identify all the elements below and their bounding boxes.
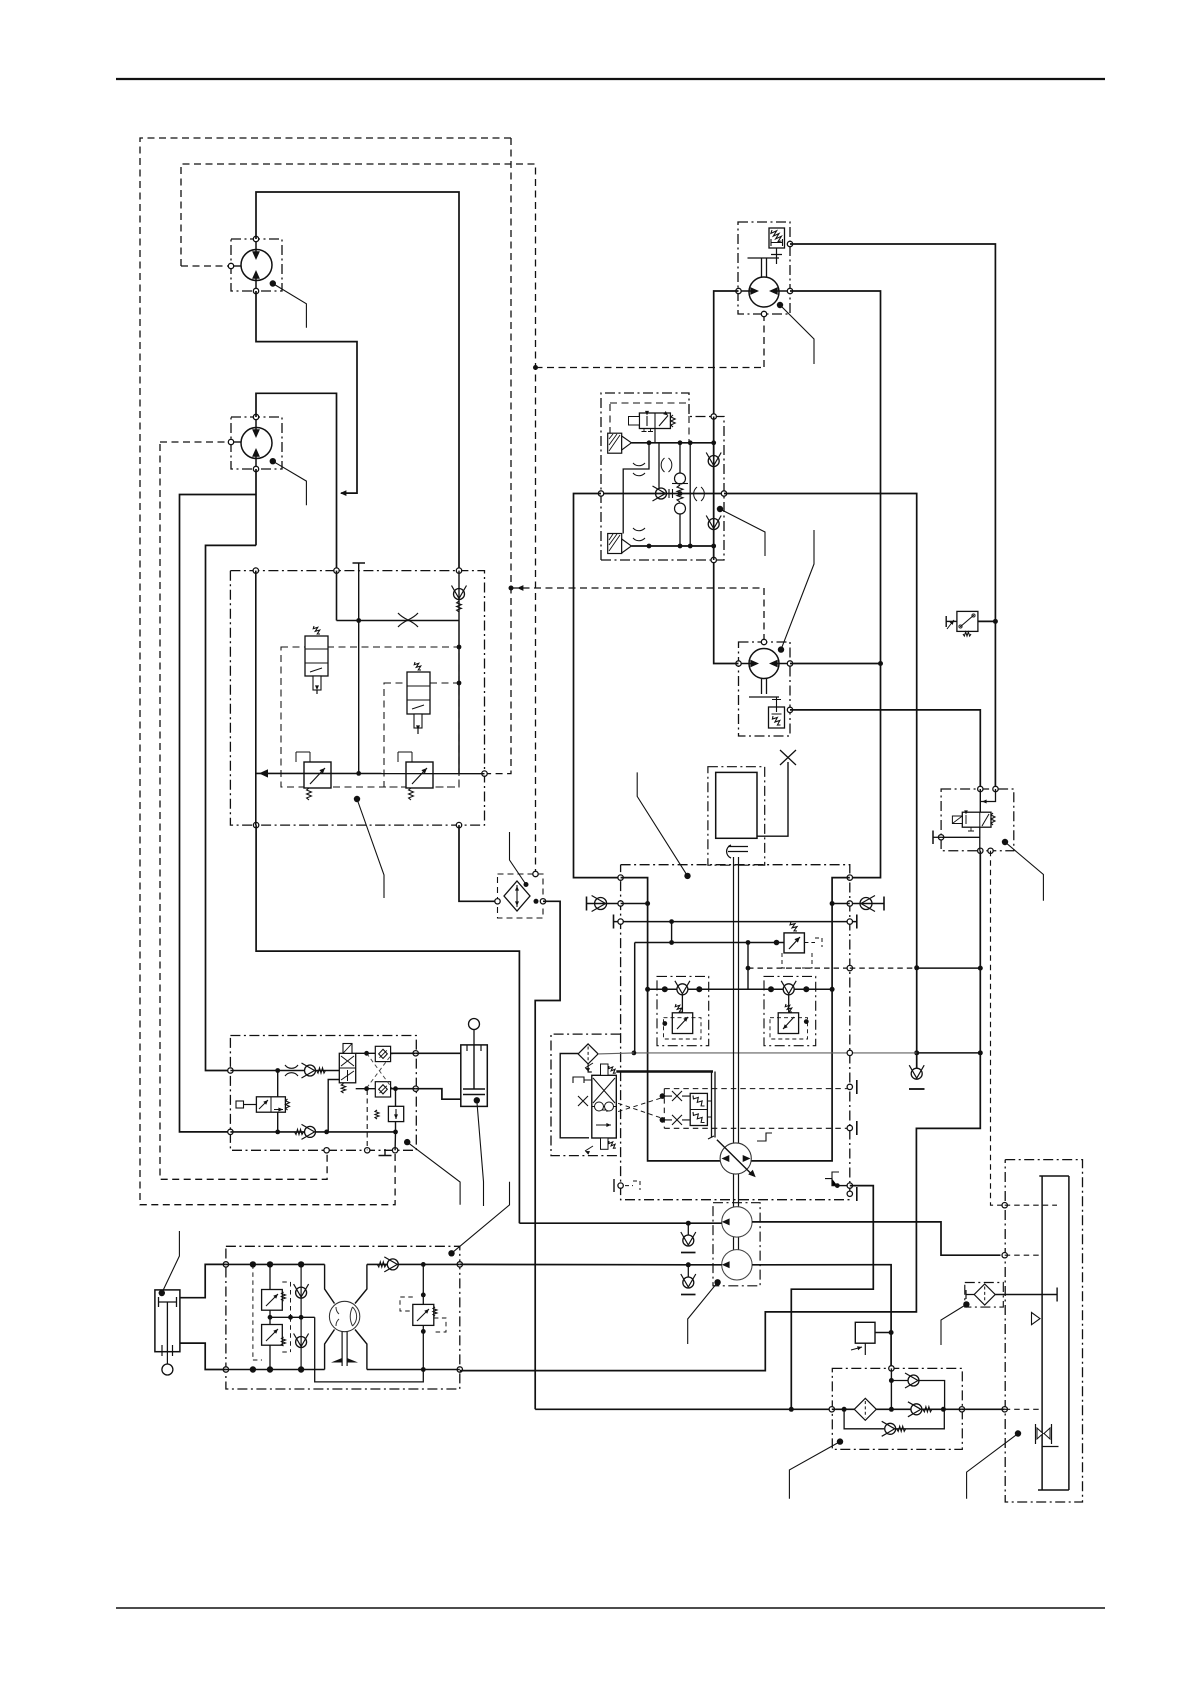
shuttle junction b [534, 899, 539, 904]
motor M3 bottom port [761, 311, 766, 316]
V2 throttle symbol [398, 613, 418, 627]
block V4 outline [621, 865, 850, 1200]
motor M3 enclosure box [738, 222, 790, 314]
gear pump P3a circle [722, 1207, 752, 1237]
strainer F3 diamond [974, 1284, 995, 1305]
P1 rail jog from pump left low [325, 1330, 335, 1370]
cylinder C1 stem and head circle [473, 1030, 475, 1045]
P1 right valve column bottom [422, 1326, 424, 1370]
V1 valve drop [658, 443, 660, 494]
V4 left check port [618, 901, 623, 906]
F2 junction a [842, 1407, 847, 1412]
V4 comp port top [847, 1084, 852, 1089]
V1 metering check left [656, 488, 667, 499]
shuttle right port [540, 899, 545, 904]
P1 valve column [269, 1264, 271, 1289]
V2 rail junction a [356, 771, 361, 776]
wire M3 relief to pressure switch column [790, 244, 995, 789]
regulator X stub [578, 1096, 588, 1106]
motor M1 top port [253, 236, 258, 241]
V4 comp tbar top [856, 1080, 858, 1094]
wire M2 bottom long drop [255, 469, 257, 545]
pump regulator box RB outline [551, 1034, 621, 1156]
junction on enclosure A edge [509, 586, 514, 591]
V2 top port 2 [334, 568, 339, 573]
valve block V2 outline [230, 571, 484, 826]
V2 upper rail [337, 620, 460, 622]
V1 rail junction [711, 440, 716, 445]
solenoid valve Y2 in V2 [414, 662, 421, 670]
V3 bottom port 1 [324, 1148, 329, 1153]
V4 left inlet check [595, 898, 607, 910]
P1 check top right [387, 1259, 398, 1270]
wire V2 bottom1 to pump line [256, 825, 519, 1223]
pressure reducing valve PR2 [406, 762, 433, 788]
tank coupler symbol [1036, 1424, 1052, 1444]
P1 top rail [226, 1263, 325, 1265]
motor M3 circle [749, 277, 779, 307]
compensator stub dot upper [660, 1093, 666, 1099]
pressure switch PS1 [957, 611, 978, 631]
P1 dashed pilot lines [253, 1264, 262, 1360]
V4 top-left port [618, 875, 623, 880]
F2 top port [889, 1366, 894, 1371]
V1 center twin circles with spring [675, 473, 686, 484]
P1 bottom rail [226, 1369, 325, 1371]
check stub 1 valve [683, 1235, 694, 1246]
breather line [757, 762, 788, 836]
SB1 check-valve link [681, 995, 683, 1013]
drive shaft double line lower [734, 1237, 739, 1251]
compensator stub dot lower [660, 1117, 666, 1123]
V2 center vertical [358, 571, 360, 774]
dashed enclosure A right edge to valve-block port [486, 138, 511, 774]
solenoid block V5 outline [941, 789, 1014, 851]
junction on enclosure B edge [533, 365, 538, 370]
shuttle valve S1 dashed box [498, 874, 544, 918]
T1 suction dashed inside [1005, 1408, 1042, 1410]
V1 rail junction [711, 544, 716, 549]
hand valve HV in V3 [256, 1097, 285, 1112]
V4 drain drop x634 [634, 943, 636, 1053]
leader to motor M1 [270, 280, 276, 286]
V3 junction b [275, 1130, 280, 1135]
motor M2 enclosure box [231, 417, 282, 469]
V2 bottom port 1 [253, 822, 258, 827]
V4 bottom-right port 2 [847, 1191, 852, 1196]
V2 check drop [458, 571, 460, 621]
leader to F3 [963, 1301, 969, 1307]
cylinder C1 body [461, 1045, 488, 1107]
shuttle top port [533, 871, 538, 876]
wire M1 bottom to junction [256, 291, 357, 493]
sub-box SB1 outline [657, 976, 709, 1045]
pump P1 shaft arrows [342, 1332, 347, 1366]
motor M1 circle [241, 250, 272, 281]
motor M1 arrows [255, 239, 257, 291]
swash linkage double line [712, 1072, 716, 1138]
V4 left inlet stub [587, 903, 621, 905]
V4 charge rail junction [696, 986, 702, 992]
strainer F3 left stub [966, 1290, 974, 1299]
gear pump P3a arrow [722, 1218, 730, 1225]
variable pump P2 circle [720, 1143, 751, 1174]
V3 check on upper rail [305, 1065, 316, 1076]
V4 drain hook [625, 1181, 640, 1190]
V5 solenoid valve [962, 812, 991, 827]
P1 right port bottom [457, 1367, 462, 1372]
V3 throttle on upper rail [285, 1065, 298, 1076]
arrowhead on drain manifold [517, 585, 523, 591]
bottom rule [116, 1607, 1105, 1609]
leader to P1 [448, 1250, 454, 1256]
pressure reducing valve PR1 [304, 762, 331, 788]
drive shaft double line mid [734, 1174, 739, 1207]
leader to T1 [1015, 1430, 1021, 1436]
case drain junction on x980 [978, 1050, 983, 1055]
wire C2 bottom to P1 [180, 1343, 226, 1369]
P1 rail jog into pump left [325, 1264, 335, 1303]
V1 left jog [623, 443, 649, 534]
pilot check box PB1 [375, 1046, 390, 1061]
P1 valve column mid [269, 1310, 271, 1324]
dashed enclosure C outline (motor M2 boundary) [160, 444, 327, 1179]
wire PS1 to column [978, 620, 996, 622]
P1 bottom rail junction [250, 1366, 256, 1372]
V3 right port 2 [413, 1086, 418, 1091]
V3 DV return link [328, 1080, 339, 1132]
P1 top rail junction [250, 1261, 256, 1267]
motor M4 arrows [739, 663, 791, 665]
dashed drain manifold line y=588 [511, 588, 764, 640]
motor M3 arrows [739, 290, 791, 292]
swash control thick line [616, 1070, 713, 1073]
F2 top branch drop [890, 1368, 892, 1409]
V1 lower rail [631, 545, 713, 547]
V4 bottom-right junction [835, 1183, 840, 1188]
motor M4 shaft and seal [749, 678, 779, 697]
V4 gauge tbar right [856, 915, 858, 929]
wire M4 right port [790, 663, 881, 665]
V3 right port 1 [413, 1051, 418, 1056]
P1 bottom rail junction [267, 1366, 273, 1372]
V4 comp tbar bottom [856, 1121, 858, 1135]
F2 bottom branch right [896, 1409, 944, 1429]
F2 main line [832, 1408, 962, 1410]
V2 dashed pilot box 2 [384, 683, 459, 787]
V1 cushion block upper [608, 433, 622, 453]
V3 wire DV top to PB1 [356, 1052, 376, 1054]
compensator dashed frame [664, 1089, 850, 1129]
M1 left port stub [233, 265, 241, 267]
M2 left port stub [233, 441, 241, 443]
V4 gauge drop [671, 922, 673, 943]
V4 pilot line y968 dashed [748, 967, 850, 969]
V1 right inner vertical [689, 443, 691, 546]
strainer F3 outline [965, 1283, 1004, 1308]
V1 spring column upper [679, 443, 681, 473]
leader to F2 [837, 1438, 843, 1444]
P1 right junction d [421, 1367, 426, 1372]
V1 orifice arcs mid [661, 458, 672, 472]
case drain from V4 to suction [791, 1186, 873, 1410]
V1 rail junction [647, 440, 652, 445]
F2 right port [959, 1407, 964, 1412]
V2 right column [458, 621, 460, 774]
SB2 junction [804, 1019, 809, 1024]
V1 solenoid valve body [639, 413, 670, 429]
V4 gauge rail [614, 921, 857, 923]
leader to motor M4 (up-right) [778, 646, 784, 652]
wire C2 top to P1 [180, 1264, 226, 1297]
V1 top port [711, 414, 716, 419]
leader to C2 [159, 1290, 165, 1296]
junction pilot on x980 [978, 966, 983, 971]
SB1 relief valve [672, 1013, 692, 1034]
wire V3 to cylinder bottom [416, 1089, 461, 1100]
V4 left check to junction [621, 903, 648, 905]
V4 bottom-right stub [837, 1185, 850, 1187]
V4 pilot line solid tail [917, 967, 981, 969]
V4 gauge drop end [669, 940, 674, 945]
V2 left vertical (through) [255, 571, 257, 826]
tank T1 vessel [1038, 1176, 1069, 1490]
roller pump P1a circle [329, 1301, 359, 1331]
pilot check box PB2 [375, 1082, 390, 1097]
V5 top port 1 [978, 786, 983, 791]
compensator X stub lower [672, 1115, 682, 1125]
V4 right inlet check [860, 898, 872, 910]
V2 top port 3 [456, 568, 461, 573]
T1 suction port [1002, 1407, 1007, 1412]
junction y=967.8 on x917 [914, 965, 919, 970]
V4 gauge junction [669, 919, 674, 924]
V3 tank symbol at bottom [379, 1149, 392, 1156]
P1 mid junction a [268, 1315, 273, 1320]
V3 solid drop to bottom port 3 [394, 1132, 396, 1150]
P1 valve column low [269, 1345, 271, 1369]
V5 inner arrow [982, 800, 987, 804]
T1 pilot line inside [1005, 1204, 1057, 1206]
V4 bottom-left drain port [618, 1183, 623, 1188]
P1 top rail junction [298, 1261, 304, 1267]
V4 charge rail junction [662, 986, 668, 992]
P1 right junction c [421, 1329, 426, 1334]
V4 case drain junction x634 [632, 1051, 637, 1056]
V3 bottom port 2 [365, 1148, 370, 1153]
motor M2 arrows [255, 417, 257, 469]
regulator spool top spring [601, 1064, 609, 1075]
fan line junction [686, 1262, 691, 1267]
dashed drain line of motor M3 [763, 314, 765, 368]
V4 wire from top-left port down [621, 878, 721, 1161]
V3 wire PB2 to right port [391, 1088, 416, 1090]
cylinder C1 piston [463, 1045, 485, 1095]
relief valve P1-RVc [413, 1304, 434, 1325]
V4 charge rail [648, 988, 833, 990]
charge line from shuttle drop [519, 1222, 721, 1224]
P1 check column [300, 1264, 302, 1369]
V4 case drain port right [847, 1050, 852, 1055]
F2 top branch right [919, 1381, 945, 1410]
V1 interior main vertical [713, 417, 715, 561]
V1 rail junction [678, 544, 683, 549]
leader to motor M3 [777, 302, 783, 308]
V4 right inlet seat bar [883, 897, 885, 911]
regulator filter drop [588, 1064, 592, 1072]
engine coupling [727, 845, 731, 858]
P1 rail jog into pump right [355, 1264, 367, 1303]
check stub 2 tank bar [681, 1294, 696, 1296]
P1 check lower [296, 1337, 307, 1348]
main relief valve R1 [784, 933, 804, 953]
V3 left port 2 [228, 1129, 233, 1134]
V2 right column dot b [457, 681, 462, 686]
V2 right column dot a [457, 645, 462, 650]
compensator X stub upper [672, 1091, 682, 1101]
cylinder C2 body [155, 1290, 180, 1352]
F2 top branch [891, 1380, 908, 1382]
P1 rail jog from pump right low [355, 1330, 367, 1370]
motor M1 bottom port [253, 288, 258, 293]
wire V1 right port to x917 [724, 494, 917, 1069]
P1 top rail junction [267, 1261, 273, 1267]
V3 junction d [393, 1130, 398, 1135]
V3 junction a [275, 1068, 280, 1073]
pump block P1 outline [226, 1246, 460, 1389]
V1 through rail dot [678, 491, 683, 496]
PS2 junction [889, 1330, 894, 1335]
regulator feedback loop [560, 1054, 589, 1138]
wire M1 top to manifold [256, 192, 459, 571]
SB2 relief valve [778, 1013, 798, 1034]
P1 inner bottom link [315, 1317, 424, 1382]
V1 rail junction [688, 544, 693, 549]
V4 junction x832 y989 [830, 987, 835, 992]
F2 bottom branch [844, 1409, 884, 1429]
V5 top port 2 [993, 786, 998, 791]
SB1 check valve [677, 984, 688, 995]
leader to shuttle [525, 883, 527, 885]
V5 left port [938, 835, 943, 840]
V1 check valve lower right [708, 519, 719, 530]
F2 top branch junction [889, 1378, 894, 1383]
T1 suction line inside [962, 1408, 1005, 1410]
top rule [116, 78, 1105, 80]
motor M3 shaft [748, 258, 780, 278]
PS2 wire to fan line [875, 1332, 891, 1334]
variable pump P2 swash arrow [717, 1140, 753, 1176]
V1 metering bars [669, 489, 673, 498]
strainer F3 suction pipe [995, 1294, 1057, 1296]
relief valve under M4 [769, 707, 785, 728]
V5 bottom port 2 [988, 848, 993, 853]
V1 bypass arc pair 3 [633, 528, 645, 541]
arrowhead on V2 reducing rail [259, 769, 268, 777]
V4 right check port [847, 901, 852, 906]
check stub 2 drop [687, 1265, 689, 1277]
V4 right inlet stub [850, 903, 884, 905]
V2 bottom port 2 [456, 822, 461, 827]
P1 right junction b [421, 1293, 426, 1298]
relief valve P1-RVa [262, 1290, 283, 1311]
V3 junction f [364, 1086, 369, 1091]
leader to P3 [714, 1279, 720, 1285]
cylinder C2 stem and circle [166, 1352, 168, 1364]
dashed enclosure B outline (steering motors boundary) [181, 164, 536, 872]
V4 relief drop x748 [747, 943, 749, 990]
P1 top rail right segment [367, 1263, 460, 1265]
engine E1 body [716, 772, 757, 838]
V4 case drain rail (thin) [635, 1052, 917, 1054]
V4 right check to junction [832, 903, 850, 905]
filter block F2 outline [832, 1368, 962, 1449]
motor M3 right port [787, 288, 792, 293]
F2 junction c [941, 1407, 946, 1412]
V5 inner wire a [980, 789, 995, 802]
V1 check valve upper right [708, 456, 719, 467]
breather X symbol [780, 750, 796, 765]
V4 charge rail junction [803, 986, 809, 992]
main suction line [535, 1408, 832, 1410]
F2 filter diamond [854, 1398, 876, 1420]
P1 bottom rail right segment [367, 1369, 460, 1371]
F2 junction b [889, 1407, 894, 1412]
V2 check valve top right [454, 589, 465, 600]
V4 relief rail junction [746, 940, 751, 945]
P1 check upper [296, 1287, 307, 1298]
dashed pilot line from enclosure B to motor M3 drain [536, 367, 765, 369]
V4 wire from top-right port down [751, 878, 850, 1161]
F2 left port [829, 1407, 834, 1412]
P1 bottom rail junction [298, 1366, 304, 1372]
wire M2 top via x=336 [256, 393, 337, 570]
wire V2 bottom2 to shuttle [459, 825, 495, 901]
M1 left dashed stub [181, 265, 228, 267]
V4 top-right port [847, 875, 852, 880]
dashed enclosure A outline (left system boundary) [140, 138, 511, 1205]
V3 junction g [393, 1086, 398, 1091]
motor M4 top port [761, 639, 766, 644]
V5 left tbar [932, 831, 934, 845]
V4 x748 y968 [746, 966, 751, 971]
motor M4 left port [736, 661, 741, 666]
leader to V2 [354, 796, 360, 802]
P1 mid junction c [299, 1315, 304, 1320]
V2 plug symbol on top edge [353, 563, 366, 572]
fan line right of P3b [752, 1265, 891, 1369]
V3 dashed pilot drop [366, 1090, 368, 1150]
leader to V3 [404, 1139, 410, 1145]
V1 cushion block lower [608, 534, 622, 554]
wire M3 right down to block V4 [790, 291, 881, 878]
shuttle junction a [524, 882, 529, 887]
fan line from P1 to P3b [460, 1263, 722, 1265]
V1 inner dashed box [610, 403, 689, 443]
V3 check on lower rail [305, 1126, 316, 1137]
V1 spring column lower [679, 514, 681, 546]
regulator spool [592, 1075, 617, 1138]
regulator filter out [598, 1053, 634, 1054]
junction y=1053 on x917 [914, 1050, 919, 1055]
motor M2 top port [253, 414, 258, 419]
motor M2 circle [241, 428, 272, 459]
check stub 1 tank bar [681, 1252, 696, 1254]
variable pump P2 drain hook [757, 1133, 772, 1141]
regulator hook [573, 1077, 584, 1083]
V3 upper rail [230, 1070, 339, 1072]
SB2 check-valve link [788, 995, 790, 1013]
